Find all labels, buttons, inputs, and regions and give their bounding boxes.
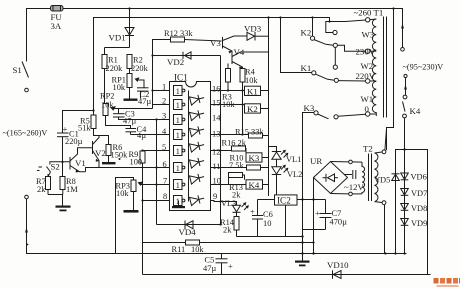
- relay coil K4: [246, 180, 269, 190]
- svg-text:51k: 51k: [78, 124, 91, 133]
- LED VL3: [221, 199, 249, 212]
- svg-text:K4: K4: [249, 180, 260, 190]
- svg-text:1: 1: [176, 197, 180, 206]
- relay coil K1: [245, 86, 269, 96]
- resistor R16: [222, 139, 247, 158]
- svg-text:T2: T2: [363, 144, 373, 154]
- node output terminal top: [401, 23, 444, 72]
- potentiometer RP2: [100, 92, 153, 116]
- LED VL2: [272, 165, 303, 195]
- node junction: [61, 161, 63, 163]
- capacitor C4: [126, 125, 148, 140]
- svg-text:R15 33k: R15 33k: [235, 128, 264, 137]
- potentiometer RP1: [112, 74, 145, 99]
- transformer T1: [354, 8, 387, 118]
- ground R7R8: [56, 206, 71, 212]
- svg-text:K1: K1: [247, 86, 258, 96]
- svg-text:K3: K3: [249, 153, 260, 163]
- svg-text:10k: 10k: [101, 101, 114, 110]
- wire VL chain top: [269, 147, 277, 152]
- resistor R1: [102, 48, 123, 104]
- capacitor C6: [250, 200, 273, 237]
- svg-text:16: 16: [212, 85, 220, 94]
- wire UR left down: [313, 178, 315, 254]
- diode VD8: [401, 204, 428, 214]
- transistor V1: [70, 148, 93, 173]
- wire T2 secondary bottom down: [384, 205, 386, 254]
- capacitor C2: [137, 88, 151, 106]
- svg-text:470µ: 470µ: [330, 218, 348, 227]
- wire UR outputs: [331, 160, 363, 196]
- resistor R9: [129, 150, 170, 201]
- wire pin2 row: [153, 104, 170, 106]
- wire node to V1 base: [50, 162, 70, 165]
- wire R7 R8 bottom join: [48, 195, 63, 206]
- resistor R14: [220, 212, 239, 236]
- wire bottom second row: [143, 274, 431, 276]
- svg-text:IC2: IC2: [277, 196, 291, 206]
- diode VD5: [374, 173, 400, 185]
- node bus cross: [219, 200, 221, 202]
- svg-text:~12V: ~12V: [344, 182, 365, 192]
- transistor V3: [210, 36, 247, 54]
- svg-text:V1: V1: [75, 158, 86, 168]
- diode VD6: [401, 150, 427, 254]
- svg-text:W2: W2: [361, 61, 374, 71]
- svg-text:+: +: [250, 208, 255, 217]
- watermark: [434, 278, 460, 287]
- resistor R10: [229, 154, 269, 171]
- svg-text:VL1: VL1: [286, 155, 301, 164]
- svg-text:47µ: 47µ: [203, 264, 216, 273]
- wire long pin6 row: [86, 168, 170, 172]
- svg-text:10k: 10k: [116, 189, 129, 198]
- svg-text:1: 1: [176, 131, 180, 140]
- resistor R7: [36, 174, 51, 195]
- svg-text:+: +: [63, 124, 68, 134]
- wire pin13 row: [211, 134, 249, 136]
- svg-text:VL3: VL3: [221, 199, 236, 208]
- svg-text:1: 1: [162, 83, 166, 92]
- svg-text:14: 14: [212, 114, 221, 123]
- wire pin12 row: [211, 150, 232, 152]
- svg-text:10: 10: [263, 219, 271, 228]
- wire RP2 bottom to C4: [106, 116, 131, 129]
- IC1 internal diodes: [189, 91, 206, 206]
- svg-text:1: 1: [176, 101, 180, 110]
- wire pin11 row: [211, 167, 247, 169]
- ground bar R6: [102, 162, 116, 164]
- svg-text:5: 5: [162, 143, 166, 152]
- svg-text:W1: W1: [361, 94, 374, 104]
- wire pin10 row: [211, 184, 247, 186]
- wire R11 down leg: [142, 243, 144, 275]
- ground main: [295, 254, 310, 267]
- diode VD1: [109, 9, 135, 48]
- node dot: [119, 158, 121, 160]
- op-amp IC1 chip body: [170, 73, 211, 211]
- switch S2: [37, 162, 60, 177]
- ground bar RP1/C2: [124, 99, 138, 101]
- diode VD4: [157, 120, 221, 238]
- svg-text:~260 T1: ~260 T1: [354, 8, 384, 18]
- svg-text:UR: UR: [310, 156, 322, 166]
- IC1 internal buffers: [174, 86, 185, 206]
- diode VD7: [401, 189, 428, 199]
- wire pin16 row: [211, 90, 245, 92]
- wire inner box top: [94, 18, 330, 116]
- rectifier UR: [310, 156, 348, 194]
- wire top rail: [27, 9, 403, 62]
- svg-text:VD6: VD6: [411, 173, 427, 182]
- svg-text:47µ: 47µ: [138, 97, 151, 106]
- svg-text:7.5k: 7.5k: [229, 161, 244, 170]
- svg-text:220µ: 220µ: [65, 137, 83, 146]
- transistor V2: [93, 136, 106, 168]
- relay contact K3: [304, 103, 366, 119]
- svg-text:3A: 3A: [51, 21, 62, 31]
- svg-text:VD2: VD2: [167, 57, 184, 67]
- resistor R3: [222, 64, 235, 110]
- svg-text:1: 1: [176, 164, 180, 173]
- svg-text:1: 1: [176, 87, 180, 96]
- capacitor C1: [57, 124, 83, 146]
- relay contact K1: [281, 18, 366, 83]
- node bus dots: [301, 235, 303, 237]
- svg-text:K4: K4: [410, 106, 421, 116]
- svg-text:3: 3: [162, 112, 166, 121]
- node R3 junction: [227, 89, 229, 91]
- wire mid bottom row: [237, 236, 303, 238]
- svg-text:1: 1: [176, 147, 180, 156]
- svg-text:15: 15: [212, 99, 220, 108]
- ground inside IC1: [172, 201, 185, 209]
- svg-text:12: 12: [212, 148, 220, 157]
- LED VL1: [272, 150, 302, 167]
- resistor R4: [240, 68, 258, 135]
- svg-text:IC1: IC1: [174, 73, 188, 83]
- node dots IC2 right: [301, 198, 303, 200]
- svg-text:C6: C6: [263, 210, 273, 219]
- svg-text:220k: 220k: [131, 64, 149, 73]
- diode VD2: [153, 52, 221, 67]
- wire IC2 right: [297, 199, 326, 201]
- node pin1 tap: [151, 89, 153, 91]
- node VD2 junction: [151, 54, 153, 56]
- svg-text:100: 100: [130, 158, 143, 167]
- resistor R11: [143, 201, 314, 255]
- svg-text:10k: 10k: [113, 83, 126, 92]
- diode VD3: [244, 24, 269, 41]
- wire C7 bottom: [303, 229, 326, 231]
- wire IC2 left: [258, 199, 275, 201]
- wire T1 neutral down: [387, 9, 394, 151]
- ground RP3: [124, 210, 139, 213]
- svg-text:~(95~230)V: ~(95~230)V: [403, 63, 444, 72]
- svg-text:VD3: VD3: [244, 24, 262, 34]
- wire left arrow: [25, 227, 28, 233]
- wire pin4 row: [131, 134, 170, 136]
- svg-text:R11: R11: [172, 245, 186, 254]
- relay coil K3: [246, 153, 269, 163]
- capacitor 12V filter: [344, 170, 365, 192]
- svg-text:S1: S1: [13, 65, 22, 75]
- svg-text:W3: W3: [362, 30, 375, 40]
- svg-text:VD5: VD5: [374, 176, 390, 185]
- svg-text:2k: 2k: [37, 185, 46, 194]
- resistor R2: [127, 55, 149, 74]
- svg-text:7: 7: [163, 177, 167, 186]
- svg-text:VD10: VD10: [327, 260, 349, 270]
- wire IC2 bottom: [285, 205, 287, 236]
- svg-text:220k: 220k: [106, 64, 124, 73]
- wire R1 R2 top join: [105, 47, 130, 49]
- svg-text:VD4: VD4: [179, 227, 197, 237]
- capacitor C7: [315, 200, 347, 230]
- svg-text:+: +: [228, 262, 233, 271]
- wire pin9 row to VL3: [211, 201, 237, 206]
- svg-text:K1: K1: [301, 63, 312, 73]
- wire right coil bus: [268, 18, 270, 197]
- svg-text:47µ: 47µ: [123, 117, 136, 126]
- wire T2 secondary top up: [385, 129, 387, 151]
- wire pin1 pin2 bus: [152, 40, 154, 109]
- resistor R12: [153, 29, 222, 56]
- transformer T2: [362, 144, 386, 205]
- wire T1 taps: [366, 18, 377, 117]
- svg-text:4µ: 4µ: [137, 131, 146, 140]
- svg-text:VD1: VD1: [109, 33, 126, 43]
- svg-text:10k: 10k: [245, 76, 258, 85]
- svg-text:K2: K2: [301, 28, 312, 38]
- svg-text:1: 1: [176, 181, 180, 190]
- diode VD10: [327, 260, 349, 279]
- svg-text:1: 1: [176, 116, 180, 125]
- svg-text:2k: 2k: [223, 226, 232, 235]
- fuse FU: [51, 5, 64, 31]
- capacitor C5: [203, 254, 233, 275]
- potentiometer RP3: [116, 178, 170, 254]
- svg-text:RP2: RP2: [100, 92, 114, 101]
- wire bus K3 line: [303, 113, 314, 254]
- switch K4: [403, 74, 421, 118]
- IC1 pin numbers left: [162, 83, 167, 202]
- svg-text:V4: V4: [234, 47, 245, 57]
- svg-text:R16 2k: R16 2k: [222, 139, 247, 148]
- wire pin1 row: [153, 90, 170, 92]
- wire bus VD2 down: [220, 56, 222, 225]
- diode VD9: [401, 219, 428, 229]
- svg-text:K3: K3: [304, 103, 315, 113]
- wire diode box top: [396, 150, 428, 275]
- resistor R5: [78, 115, 96, 133]
- svg-text:K2: K2: [247, 104, 258, 114]
- svg-text:V3: V3: [210, 38, 221, 48]
- svg-text:11: 11: [213, 162, 221, 171]
- switch S1: [13, 62, 29, 92]
- svg-text:VD7: VD7: [411, 189, 427, 198]
- node R4 bottom: [241, 133, 243, 135]
- wire K4 down: [404, 118, 406, 150]
- svg-text:VD9: VD9: [411, 219, 427, 228]
- svg-text:V2: V2: [95, 148, 106, 158]
- transistor V4: [232, 47, 269, 69]
- svg-text:S2: S2: [51, 162, 60, 172]
- wire pin3 row: [119, 119, 170, 121]
- svg-text:6: 6: [163, 160, 167, 169]
- svg-text:8: 8: [163, 192, 167, 201]
- svg-text:2: 2: [162, 97, 166, 106]
- IC2: [275, 195, 298, 206]
- node input terminal: [3, 129, 48, 199]
- IC1 pin numbers right: [212, 85, 221, 202]
- resistor R15: [235, 128, 269, 139]
- svg-text:1M: 1M: [66, 185, 78, 194]
- resistor R13: [229, 173, 245, 200]
- svg-text:9: 9: [213, 192, 217, 201]
- relay contact K2: [301, 18, 366, 66]
- wire C1 top: [63, 111, 94, 134]
- wire R5 to R6: [94, 129, 109, 145]
- resistor R6: [106, 143, 128, 162]
- relay coil K2: [245, 104, 269, 114]
- svg-text:VD8: VD8: [411, 204, 427, 213]
- svg-text:R12 33k: R12 33k: [164, 29, 193, 38]
- capacitor C3: [113, 109, 136, 126]
- resistor R8: [60, 162, 78, 195]
- wire pin8 row: [143, 200, 170, 202]
- svg-text:VL2: VL2: [287, 170, 302, 179]
- node junction dots: [27, 7, 406, 254]
- wire pin15 row: [211, 104, 245, 106]
- wire left bottom: [27, 199, 407, 254]
- svg-text:+: +: [315, 209, 320, 218]
- svg-text:10k: 10k: [191, 245, 204, 254]
- svg-text:~(165~260)V: ~(165~260)V: [3, 129, 48, 138]
- wire C1 to V1 base node: [62, 137, 64, 162]
- IC1 buffer labels: [176, 87, 180, 206]
